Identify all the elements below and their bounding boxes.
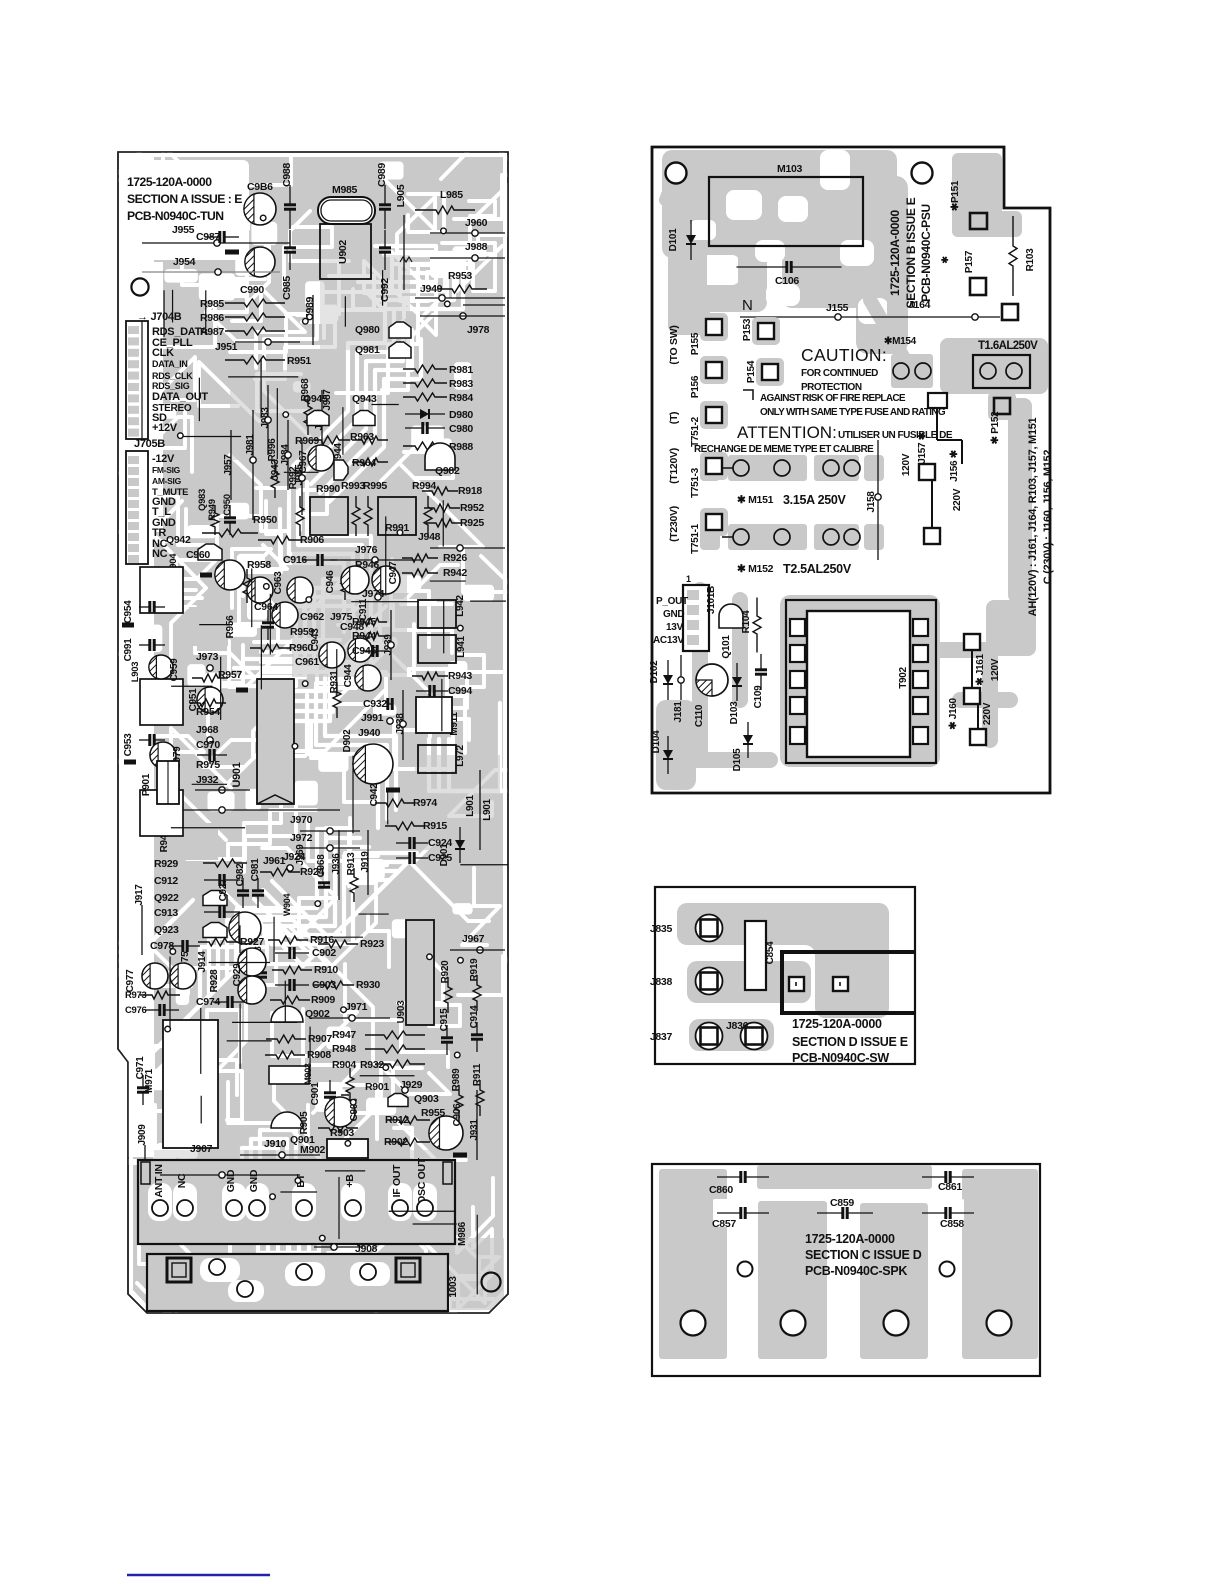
svg-text:R950: R950 [253,514,277,526]
svg-text:J836: J836 [726,1020,749,1032]
svg-text:DATA_IN: DATA_IN [152,359,188,369]
svg-text:SECTION C ISSUE D: SECTION C ISSUE D [805,1248,922,1262]
svg-text:R943: R943 [448,670,472,682]
svg-text:R958: R958 [247,559,271,571]
svg-text:✱ M151: ✱ M151 [737,494,774,506]
svg-text:C914: C914 [469,1005,480,1028]
svg-text:GND: GND [248,1169,260,1192]
svg-text:-12V: -12V [152,453,175,465]
svg-text:C960: C960 [186,549,210,561]
svg-text:1725-120A-0000: 1725-120A-0000 [888,209,902,295]
svg-text:Q101: Q101 [721,635,732,659]
svg-text:R948: R948 [332,1043,356,1055]
svg-text:M971: M971 [144,1068,155,1093]
svg-text:1725-120A-0000: 1725-120A-0000 [792,1017,882,1031]
svg-text:R928: R928 [209,969,220,992]
svg-text:PCB-N0940C-PSU: PCB-N0940C-PSU [919,204,933,302]
svg-text:PCB-N0940C-SW: PCB-N0940C-SW [792,1051,889,1065]
svg-text:M903: M903 [303,1063,313,1085]
svg-text:R929: R929 [154,858,178,870]
svg-text:J157 ✱: J157 ✱ [917,431,928,464]
svg-text:C988: C988 [281,163,293,187]
svg-text:R104: R104 [741,610,752,633]
svg-text:R981: R981 [449,364,473,376]
svg-text:J101B: J101B [706,586,717,614]
svg-text:D103: D103 [729,701,740,724]
svg-text:T902: T902 [898,666,909,688]
svg-text:1: 1 [686,574,691,584]
svg-text:C902: C902 [312,947,336,959]
svg-text:SECTION D ISSUE E: SECTION D ISSUE E [792,1035,908,1049]
svg-text:T751-3: T751-3 [690,467,701,498]
svg-text:U901: U901 [231,762,243,787]
svg-text:L901: L901 [465,794,476,816]
svg-text:J949: J949 [420,283,443,295]
svg-text:C901: C901 [310,1082,321,1105]
svg-text:R920: R920 [440,960,451,983]
svg-text:Q902: Q902 [305,1008,330,1020]
svg-text:J181: J181 [673,701,684,723]
svg-text:R919: R919 [469,958,480,981]
svg-text:R927: R927 [240,936,264,948]
svg-text:C976: C976 [125,1005,147,1016]
svg-text:R911: R911 [472,1063,483,1086]
svg-text:J967: J967 [462,933,485,945]
svg-text:J976: J976 [355,544,378,556]
svg-text:C944: C944 [343,664,354,687]
svg-text:C992: C992 [379,278,391,302]
svg-text:PCB-N0940C-SPK: PCB-N0940C-SPK [805,1264,907,1278]
svg-text:✱ P152: ✱ P152 [990,411,1001,444]
svg-text:C861: C861 [938,1181,962,1193]
svg-text:J988: J988 [465,241,488,253]
svg-text:C858: C858 [940,1218,964,1230]
svg-text:1725-120A-0000: 1725-120A-0000 [805,1232,895,1246]
svg-text:R924: R924 [300,866,324,878]
svg-text:J948: J948 [418,531,441,543]
svg-text:R974: R974 [413,797,437,809]
svg-text:R989: R989 [451,1068,462,1091]
svg-text:R969: R969 [295,435,319,447]
svg-text:R930: R930 [356,979,380,991]
svg-text:C970: C970 [196,739,220,751]
svg-text:J970: J970 [290,814,313,826]
svg-text:AM-SIG: AM-SIG [152,476,182,486]
svg-text:J957: J957 [223,454,234,476]
svg-text:J910: J910 [264,1138,287,1150]
svg-text:C929: C929 [232,963,243,986]
svg-text:D104: D104 [651,730,662,753]
svg-text:T1.6AL250V: T1.6AL250V [978,340,1038,352]
svg-text:+B: +B [344,1174,356,1188]
svg-text:P901: P901 [141,773,152,796]
svg-text:J907: J907 [190,1143,213,1155]
svg-text:N: N [742,297,753,314]
svg-text:C987: C987 [196,231,220,243]
svg-text:C985: C985 [281,276,293,300]
svg-text:J981: J981 [245,434,256,456]
svg-text:✱ J161: ✱ J161 [975,653,986,685]
svg-text:1725-120A-0000: 1725-120A-0000 [127,175,212,189]
svg-text:J960: J960 [465,217,488,229]
svg-text:J936: J936 [331,853,342,875]
svg-text:C110: C110 [694,704,705,727]
svg-text:L905: L905 [395,184,407,207]
svg-text:R915: R915 [423,820,447,832]
svg-text:Q981: Q981 [355,344,380,356]
svg-text:J705B: J705B [134,438,165,450]
svg-text:C913: C913 [154,907,178,919]
svg-text:C989: C989 [376,163,388,187]
svg-text:CAUTION:: CAUTION: [801,345,887,365]
svg-text:C954: C954 [123,600,134,623]
svg-text:C9B6: C9B6 [247,181,273,193]
svg-text:D101: D101 [668,228,679,251]
svg-text:J971: J971 [345,1001,368,1013]
svg-text:L903: L903 [130,662,141,682]
svg-text:M986: M986 [457,1221,468,1246]
svg-text:C947: C947 [388,561,399,584]
svg-text:J835: J835 [650,923,673,935]
svg-text:R951: R951 [287,355,311,367]
svg-text:R907: R907 [308,1033,332,1045]
svg-text:C991: C991 [123,638,134,661]
svg-text:C994: C994 [448,685,472,697]
svg-text:✱P151: ✱P151 [950,180,961,211]
svg-text:J156 ✱: J156 ✱ [949,449,960,482]
svg-text:R913: R913 [346,852,357,875]
svg-text:C963: C963 [273,571,284,594]
svg-text:C982: C982 [235,863,246,886]
svg-text:C953: C953 [123,733,134,756]
svg-text:RDS_CLK: RDS_CLK [152,371,193,381]
svg-text:ONLY WITH SAME TYPE FUSE AND R: ONLY WITH SAME TYPE FUSE AND RATING [760,407,946,418]
svg-text:M985: M985 [332,184,358,196]
svg-text:220V: 220V [982,702,993,725]
svg-text:L941: L941 [456,635,467,657]
svg-text:J954: J954 [173,256,196,268]
svg-text:R992: R992 [288,466,299,489]
svg-text:13V: 13V [666,622,684,633]
svg-text:M902: M902 [300,1144,326,1156]
svg-text:C967: C967 [298,450,309,473]
svg-text:PROTECTION: PROTECTION [801,382,862,393]
svg-text:J837: J837 [650,1031,673,1043]
svg-text:C961: C961 [295,656,319,668]
svg-text:W904: W904 [282,894,292,917]
svg-text:R931: R931 [329,670,340,693]
svg-text:P_OUT: P_OUT [656,596,688,607]
svg-text:Q942: Q942 [166,534,191,546]
svg-text:RECHANGE DE MEME TYPE ET CALIB: RECHANGE DE MEME TYPE ET CALIBRE [694,444,874,455]
svg-text:✱ J160: ✱ J160 [948,697,959,729]
svg-text:Q982: Q982 [435,465,460,477]
svg-text:Q980: Q980 [355,324,380,336]
svg-text:J158: J158 [866,491,877,513]
svg-text:R953: R953 [448,270,472,282]
svg-text:J155: J155 [826,302,849,314]
svg-text:C962: C962 [300,611,324,623]
svg-text:C (230V) : J160, J156, M152: C (230V) : J160, J156, M152 [1042,450,1054,585]
svg-text:J991: J991 [361,712,384,724]
svg-text:T751-2: T751-2 [690,416,701,447]
svg-text:J973: J973 [196,651,219,663]
svg-text:OSC OUT: OSC OUT [416,1157,428,1204]
svg-text:R983: R983 [449,378,473,390]
svg-text:C959: C959 [169,658,180,681]
svg-text:→ J704B: → J704B [137,311,182,323]
svg-text:R905: R905 [299,1111,310,1134]
svg-text:R957: R957 [218,669,242,681]
svg-text:UTILISER UN FUSIBLE DE: UTILISER UN FUSIBLE DE [838,430,953,441]
svg-text:C854: C854 [765,941,776,964]
svg-text:D102: D102 [649,660,660,683]
svg-text:P157: P157 [964,250,975,273]
svg-text:R995: R995 [363,480,387,492]
svg-text:R918: R918 [458,485,482,497]
svg-text:C927: C927 [218,878,229,901]
svg-text:R901: R901 [365,1081,389,1093]
svg-text:C964: C964 [254,601,278,613]
svg-text:PCB-N0940C-TUN: PCB-N0940C-TUN [127,209,224,223]
svg-text:D980: D980 [449,409,473,421]
svg-text:AC13V: AC13V [653,635,684,646]
svg-text:P154: P154 [746,360,757,383]
svg-text:J968: J968 [196,724,219,736]
svg-text:✱M154: ✱M154 [884,336,917,347]
svg-text:D902: D902 [342,729,353,752]
svg-text:GND: GND [225,1169,237,1192]
svg-text:3.15A 250V: 3.15A 250V [783,493,847,507]
svg-text:C977: C977 [125,969,136,992]
svg-text:NC: NC [152,548,168,560]
svg-text:CLK: CLK [152,347,174,359]
svg-text:L901: L901 [482,798,493,820]
svg-text:R906: R906 [300,534,324,546]
svg-text:J940: J940 [358,727,381,739]
svg-text:R909: R909 [311,994,335,1006]
svg-text:C915: C915 [439,1008,450,1031]
svg-text:J972: J972 [290,832,313,844]
svg-text:P153: P153 [742,318,753,341]
svg-text:R960: R960 [289,642,313,654]
svg-text:C932: C932 [363,698,387,710]
svg-text:R986: R986 [200,312,224,324]
svg-text:C981: C981 [250,858,261,881]
svg-text:J919: J919 [360,851,371,873]
svg-text:220V: 220V [952,488,963,511]
svg-text:J943: J943 [270,459,281,481]
svg-text:R990: R990 [316,483,340,495]
svg-text:J909: J909 [137,1124,148,1146]
svg-text:Q903: Q903 [414,1093,439,1105]
svg-text:J917: J917 [134,884,145,906]
svg-text:C990: C990 [240,284,264,296]
svg-text:ATTENTION:: ATTENTION: [737,423,837,442]
svg-text:R956: R956 [225,615,236,638]
svg-text:R954: R954 [196,706,220,718]
svg-text:J838: J838 [650,976,673,988]
svg-text:C860: C860 [709,1184,733,1196]
svg-text:+12V: +12V [152,422,178,434]
svg-text:R904: R904 [332,1059,356,1071]
svg-text:T751-1: T751-1 [690,523,701,554]
svg-text:AGAINST RISK OF FIRE REPLACE: AGAINST RISK OF FIRE REPLACE [760,393,906,404]
svg-text:P156: P156 [690,375,701,398]
svg-text:C980: C980 [449,423,473,435]
svg-text:(T230V): (T230V) [668,506,680,542]
svg-text:C912: C912 [154,875,178,887]
svg-text:J978: J978 [467,324,490,336]
svg-text:IF OUT: IF OUT [391,1164,403,1197]
svg-text:SECTION B ISSUE E: SECTION B ISSUE E [904,197,918,308]
svg-text:D901: D901 [439,843,450,866]
svg-text:R926: R926 [443,552,467,564]
svg-text:C946: C946 [325,570,336,593]
svg-text:R985: R985 [200,298,224,310]
svg-text:D105: D105 [732,748,743,771]
svg-text:R925: R925 [460,517,484,529]
svg-text:J929: J929 [400,1079,423,1091]
svg-text:J951: J951 [215,341,238,353]
svg-text:(T120V): (T120V) [668,448,680,484]
svg-text:R952: R952 [460,502,484,514]
svg-text:1003: 1003 [448,1276,459,1298]
svg-text:Q945: Q945 [303,393,328,405]
svg-text:FM-SIG: FM-SIG [152,465,181,475]
svg-text:R910: R910 [314,964,338,976]
svg-text:L985: L985 [440,189,463,201]
svg-text:120V: 120V [901,453,912,476]
svg-text:FOR CONTINUED: FOR CONTINUED [801,368,878,379]
svg-text:AH(120V) : J161, J164, R103, J: AH(120V) : J161, J164, R103, J157, M151 [1027,417,1039,616]
svg-text:C857: C857 [712,1218,736,1230]
svg-text:R993: R993 [341,480,365,492]
svg-text:ANT IN: ANT IN [153,1164,165,1197]
svg-text:R975: R975 [196,759,220,771]
svg-text:NC: NC [176,1173,188,1188]
svg-text:R932: R932 [360,1059,384,1071]
svg-text:(TO SW): (TO SW) [668,325,680,364]
svg-text:J914: J914 [197,951,208,973]
svg-text:C859: C859 [830,1197,854,1209]
svg-text:R947: R947 [332,1029,356,1041]
svg-text:✱: ✱ [940,256,950,264]
svg-text:120V: 120V [990,658,1001,681]
svg-text:SECTION A ISSUE : E: SECTION A ISSUE : E [127,192,242,206]
svg-text:C109: C109 [753,685,764,708]
svg-text:(T): (T) [668,412,680,425]
svg-text:J955: J955 [172,224,195,236]
svg-text:J924: J924 [283,851,306,863]
svg-text:Q923: Q923 [154,924,179,936]
svg-text:✱ M152: ✱ M152 [737,563,774,575]
svg-text:Q922: Q922 [154,892,179,904]
svg-text:Q943: Q943 [352,393,377,405]
svg-text:J931: J931 [469,1119,480,1141]
svg-text:RDS_SIG: RDS_SIG [152,381,190,391]
svg-text:T2.5AL250V: T2.5AL250V [783,562,852,576]
svg-text:M103: M103 [777,163,803,175]
svg-text:R923: R923 [360,938,384,950]
svg-text:R984: R984 [449,392,473,404]
svg-text:GND: GND [663,609,684,620]
svg-text:P155: P155 [690,332,701,355]
svg-text:R994: R994 [412,480,436,492]
svg-text:R942: R942 [443,567,467,579]
svg-text:R103: R103 [1025,248,1036,271]
svg-text:C106: C106 [775,275,799,287]
svg-text:U902: U902 [337,240,349,264]
